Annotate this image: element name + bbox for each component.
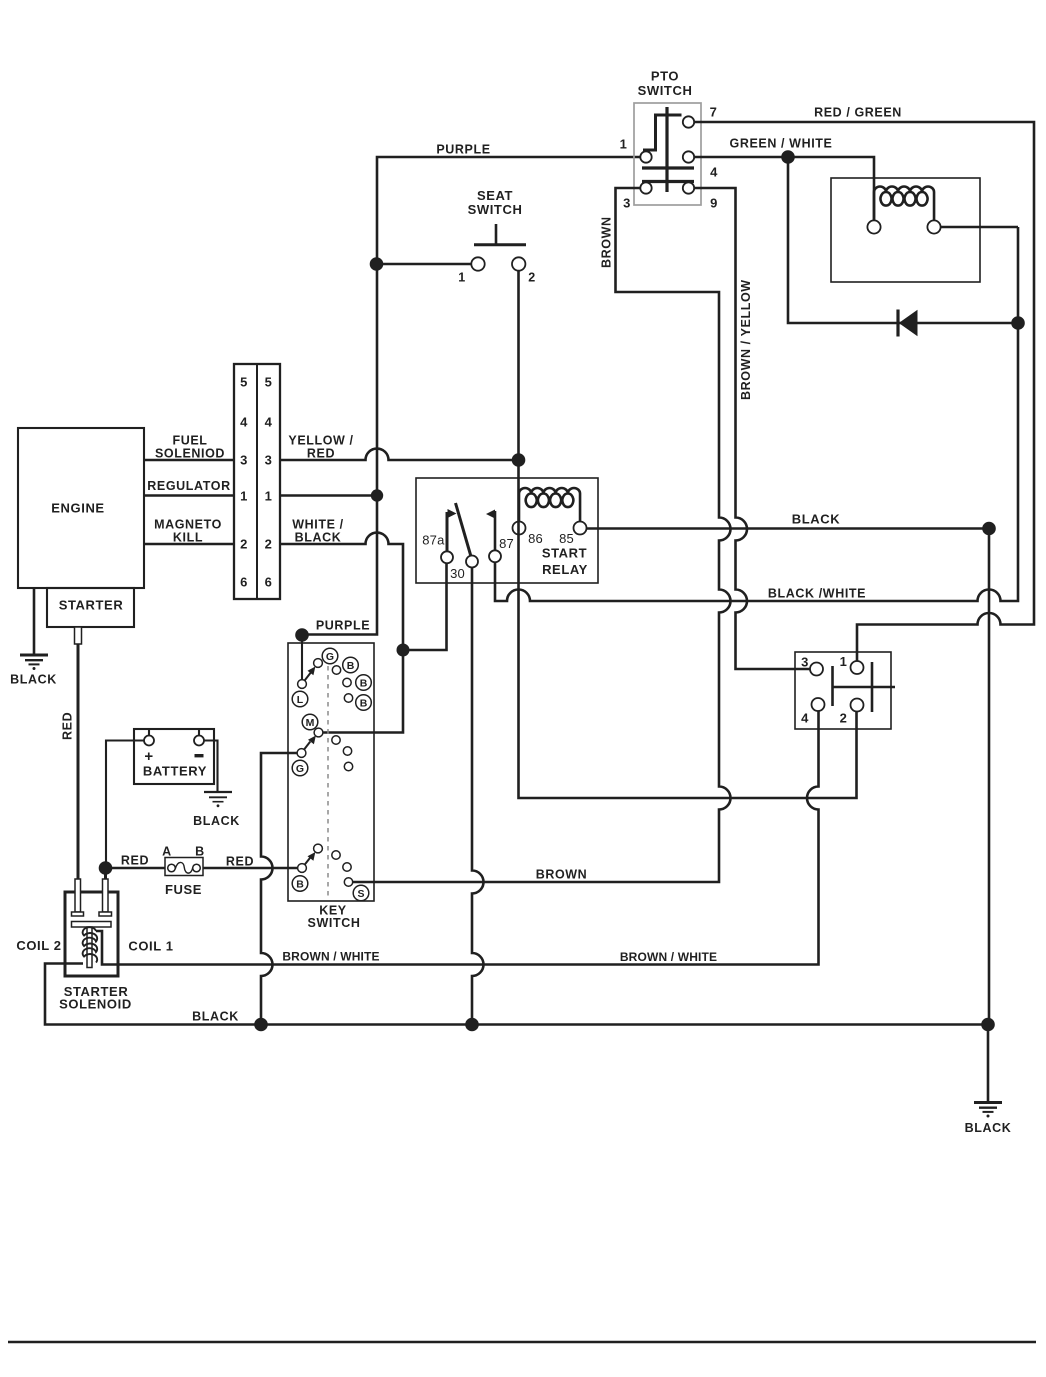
ground engine <box>10 655 57 687</box>
wire seat pin2 / relay coil86 / connector pin2 <box>519 271 857 798</box>
wire yellow/red connector to seat/relay column (hops purple) <box>280 449 519 460</box>
wire key switch G to black bus (hops at 868,964) <box>261 753 297 1025</box>
wire RED starter to solenoid post <box>77 644 80 879</box>
svg-text:RED / GREEN: RED / GREEN <box>814 106 902 120</box>
svg-text:1: 1 <box>840 654 848 669</box>
svg-text:2: 2 <box>528 271 536 285</box>
svg-text:PURPLE: PURPLE <box>316 618 370 632</box>
svg-text:6: 6 <box>265 575 273 590</box>
svg-text:BROWN: BROWN <box>600 216 614 268</box>
battery <box>134 729 214 784</box>
node purple to key switch <box>295 628 309 642</box>
node seat pin1 tap <box>370 257 384 271</box>
node white/black junction <box>397 644 410 657</box>
svg-text:RED: RED <box>307 447 335 461</box>
svg-text:3: 3 <box>801 655 809 670</box>
key switch <box>288 643 374 930</box>
svg-text:KILL: KILL <box>173 531 203 545</box>
svg-text:30: 30 <box>450 566 465 581</box>
svg-text:YELLOW /: YELLOW / <box>288 434 353 448</box>
node green/white diode tap <box>781 150 795 164</box>
svg-text:2: 2 <box>240 537 248 552</box>
svg-text:ENGINE: ENGINE <box>51 501 104 516</box>
svg-text:1: 1 <box>458 271 466 285</box>
wire diode branch green/white to junction <box>788 157 1018 323</box>
wire red node to solenoid post <box>104 868 107 879</box>
key switch section G-M <box>292 714 352 776</box>
svg-text:87: 87 <box>499 536 514 551</box>
fuse <box>162 845 205 898</box>
svg-text:B: B <box>195 845 205 859</box>
svg-text:RELAY: RELAY <box>542 562 588 577</box>
svg-text:START: START <box>542 545 587 560</box>
wire black relay85 to right column <box>587 527 990 530</box>
svg-text:B: B <box>360 698 368 710</box>
svg-text:5: 5 <box>240 375 248 390</box>
seat switch <box>458 188 536 285</box>
svg-text:BROWN / YELLOW: BROWN / YELLOW <box>739 279 753 400</box>
svg-text:GREEN / WHITE: GREEN / WHITE <box>730 137 833 151</box>
svg-text:REGULATOR: REGULATOR <box>147 479 230 493</box>
wire seat pin1 <box>377 263 472 266</box>
svg-text:M: M <box>306 717 315 729</box>
svg-text:2: 2 <box>840 711 848 726</box>
PTO switch <box>620 69 719 211</box>
wire brown/white coil1 to connector pin4 (hops at 798) <box>96 712 819 965</box>
svg-text:BLACK: BLACK <box>792 511 841 526</box>
node regulator-purple junction <box>371 489 383 501</box>
svg-text:PURPLE: PURPLE <box>436 143 490 157</box>
svg-text:BATTERY: BATTERY <box>143 764 207 779</box>
svg-text:4: 4 <box>801 711 809 726</box>
svg-text:WHITE /: WHITE / <box>292 518 343 532</box>
diode D1 <box>898 310 918 337</box>
starter block <box>47 588 134 627</box>
wire clutch coil right to black/white column <box>941 226 1018 229</box>
svg-text:BLACK: BLACK <box>10 673 57 687</box>
svg-text:87a: 87a <box>422 533 445 548</box>
svg-text:STARTER: STARTER <box>59 598 124 613</box>
svg-text:4: 4 <box>710 165 718 180</box>
key switch section L-G <box>292 648 371 710</box>
wire relay30 to black bus (hops at 882,964) <box>472 568 484 1025</box>
svg-text:RED: RED <box>226 855 254 869</box>
wire battery + to red node <box>106 741 144 862</box>
wire regulator connector to purple node <box>280 494 377 497</box>
svg-text:SWITCH: SWITCH <box>638 83 693 98</box>
svg-text:SWITCH: SWITCH <box>308 916 361 930</box>
node black junction right <box>982 522 996 536</box>
svg-text:4: 4 <box>265 415 273 430</box>
svg-text:A: A <box>162 845 172 859</box>
svg-text:G: G <box>296 763 304 775</box>
start relay <box>416 478 598 583</box>
wire black/white relay87 to clutch column (hops at 518,989) <box>495 227 1018 601</box>
wire fuel solenoid engine-connector <box>144 459 234 462</box>
wire coil2 to black bus <box>45 964 988 1025</box>
svg-text:4: 4 <box>240 415 248 430</box>
wire purple PTO pin1 to key switch <box>302 157 640 635</box>
wire white/black connector to key switch M and relay 87a (hops purple) <box>280 533 403 733</box>
svg-text:COIL 2: COIL 2 <box>16 938 61 953</box>
wire red node to fuse <box>112 867 165 870</box>
svg-text:BLACK /WHITE: BLACK /WHITE <box>768 587 866 601</box>
svg-text:BLACK: BLACK <box>192 1010 239 1024</box>
key switch section B-S <box>292 844 369 901</box>
svg-text:2: 2 <box>265 537 273 552</box>
wire engine ground <box>33 588 36 654</box>
starter terminal <box>75 627 82 644</box>
svg-text:SOLENIOD: SOLENIOD <box>155 447 225 461</box>
svg-text:MAGNETO: MAGNETO <box>154 518 222 532</box>
svg-text:RED: RED <box>61 712 75 740</box>
svg-text:1: 1 <box>240 489 248 504</box>
ground battery <box>193 792 240 828</box>
svg-text:BLACK: BLACK <box>965 1121 1012 1135</box>
PTO clutch box <box>831 178 980 282</box>
svg-text:BLACK: BLACK <box>295 531 342 545</box>
connector 4-pin <box>795 652 895 729</box>
footer rule <box>8 1341 1036 1344</box>
svg-text:COIL 1: COIL 1 <box>128 939 173 954</box>
svg-text:86: 86 <box>528 531 543 546</box>
svg-text:+: + <box>144 748 153 765</box>
wire red fuse to key switch B <box>203 867 298 870</box>
connector 6-pin engine <box>234 364 280 599</box>
svg-text:B: B <box>296 879 304 891</box>
node battery/red/fuse junction <box>99 861 113 875</box>
node relay30-black junction <box>465 1018 479 1032</box>
svg-text:B: B <box>347 660 355 672</box>
svg-text:FUSE: FUSE <box>165 882 202 897</box>
svg-text:BROWN / WHITE: BROWN / WHITE <box>282 950 379 964</box>
wire battery - to ground <box>204 741 218 792</box>
svg-text:6: 6 <box>240 575 248 590</box>
wire black column to bottom bus <box>988 529 991 1025</box>
node diode to clutch/black-white junction <box>1011 316 1025 330</box>
wire purple stub to L contact <box>301 641 303 680</box>
wire brown/yellow PTO pin9 to connector pin3 (hops at 529,601) <box>694 188 810 669</box>
node keyG-black junction <box>254 1018 268 1032</box>
svg-text:BLACK: BLACK <box>193 814 240 828</box>
svg-text:SOLENOID: SOLENOID <box>59 997 132 1012</box>
engine block <box>18 428 144 588</box>
svg-text:RED: RED <box>121 853 149 867</box>
svg-text:7: 7 <box>710 105 718 120</box>
svg-text:85: 85 <box>559 531 574 546</box>
svg-text:BROWN / WHITE: BROWN / WHITE <box>620 950 717 964</box>
wire brown PTO pin3 to key switch S (hops at 529,601,798) <box>353 188 731 882</box>
svg-text:L: L <box>297 694 304 706</box>
svg-text:S: S <box>357 888 364 900</box>
svg-text:9: 9 <box>710 196 718 211</box>
wire black bus to right ground <box>987 1025 990 1102</box>
svg-text:G: G <box>326 651 334 663</box>
svg-text:SEAT: SEAT <box>477 188 513 203</box>
svg-text:5: 5 <box>265 375 273 390</box>
node yellow-red/seat/coil junction <box>512 453 526 467</box>
svg-text:B: B <box>360 678 368 690</box>
svg-text:SWITCH: SWITCH <box>468 202 523 217</box>
starter solenoid <box>16 879 173 1012</box>
wire regulator engine-connector <box>144 494 234 497</box>
svg-text:BROWN: BROWN <box>536 867 588 881</box>
svg-text:1: 1 <box>265 489 273 504</box>
svg-text:3: 3 <box>265 453 273 468</box>
svg-text:FUEL: FUEL <box>172 434 207 448</box>
svg-text:PTO: PTO <box>651 69 679 84</box>
wire red/green PTO pin7 to connector pin1 (hops at 989) <box>694 122 1034 661</box>
wire magneto kill engine-connector <box>144 543 234 546</box>
ground right <box>965 1103 1012 1136</box>
wire green/white PTO pin4 to clutch coil <box>694 157 874 220</box>
svg-text:1: 1 <box>620 137 628 152</box>
svg-text:3: 3 <box>623 196 631 211</box>
node black bus right junction <box>981 1018 995 1032</box>
svg-text:3: 3 <box>240 453 248 468</box>
wire branch to relay 87a <box>403 564 447 651</box>
